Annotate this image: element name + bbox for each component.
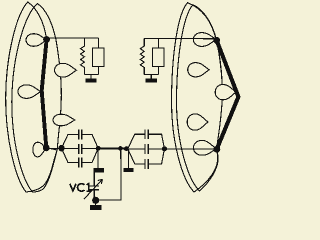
- tube V1 electrode loop on inner ellipse (lower): [53, 114, 75, 126]
- ground below right node C: [127, 148, 129, 168]
- variable capacitor VC1 plates: [89, 186, 100, 190]
- variable capacitor VC1 bottom lead: [93, 190, 95, 198]
- junction dot V1 top: [43, 36, 50, 43]
- variable capacitor VC1 arrow: [84, 179, 102, 199]
- junction dot V2 bottom: [214, 146, 221, 153]
- tube V1 electrode loop to thick electrode middle: [18, 85, 41, 99]
- variable capacitor VC1 top lead: [93, 172, 95, 186]
- junction dot node D (right bank right): [162, 146, 167, 151]
- tube V2 free electrode loop (upper): [188, 63, 209, 77]
- junction dot VC1 bottom: [92, 197, 99, 204]
- capacitor bank right: hexagon frame: [128, 134, 165, 164]
- wire bottom-right: node D to V2 bottom junction: [164, 148, 216, 150]
- ground below VC1: [95, 200, 97, 205]
- tube V2 electrode loop at top junction: [193, 33, 216, 47]
- tube V1 electrode loop to bottom junction: [33, 142, 46, 157]
- wire bottom of left RC network: [84, 74, 98, 76]
- junction dot VC1 branch: [118, 146, 123, 151]
- ground below left node B: [97, 148, 99, 168]
- wire bottom-left: V1 bottom junction to node A: [46, 147, 61, 149]
- resistor R2 box (left network): [97, 38, 99, 75]
- label VC1: [70, 184, 91, 192]
- tube V2 envelope inner ellipse: [176, 5, 222, 191]
- resistor R3 zigzag (right network): [140, 38, 144, 74]
- capacitor C1 plates (top branch, left bank): [79, 130, 82, 140]
- capacitor C4 plates (top branch, right bank): [145, 129, 148, 139]
- tube V1 thick anode electrode: [42, 40, 47, 148]
- resistor R4 box (right network): [157, 38, 159, 74]
- capacitor C3 plates (bottom branch, left bank): [79, 158, 82, 168]
- capacitor C2 plates (middle branch, left bank): [79, 144, 82, 154]
- wire top-right: RC network to V2 top junction: [144, 37, 216, 40]
- junction dot V1 bottom: [43, 145, 50, 152]
- tube V2 envelope outer ellipse: [171, 3, 222, 192]
- tube V1 electrode loop to top junction: [26, 34, 47, 47]
- resistor R1 zigzag (left network): [81, 38, 85, 75]
- tube V1 envelope outer ellipse: [6, 2, 57, 192]
- capacitor C2 middle branch wires: [62, 147, 99, 149]
- tube V1 electrode loop on inner ellipse (upper): [55, 63, 77, 77]
- tube V2 free electrode loop (lower): [187, 114, 208, 130]
- wire bottom of right RC network: [144, 74, 158, 76]
- junction dot node A (left bank left): [58, 145, 64, 151]
- tube V1 envelope inner ellipse: [12, 4, 62, 192]
- junction dot V2 top: [213, 37, 220, 44]
- junction dot node B (left bank right): [96, 146, 101, 151]
- tube V2 thick anode electrode: [217, 40, 239, 149]
- ground of left RC network: [90, 75, 92, 79]
- junction dot node C (right bank left): [124, 146, 129, 151]
- capacitor C5 middle branch wires: [128, 148, 165, 150]
- tube V2 electrode loop at bottom junction: [193, 140, 216, 155]
- wire VC1 branch: dot on thick wire down and left to VC1 bottom: [99, 148, 121, 199]
- thick wire between capacitor banks: [98, 147, 128, 149]
- ground of right RC network: [150, 75, 152, 79]
- tube V2 electrode loop on inner ellipse to anode vertex: [215, 85, 236, 100]
- capacitor C5 plates (middle branch, right bank): [145, 144, 148, 154]
- capacitor bank left: hexagon frame: [62, 134, 99, 162]
- wire top-left: V1 top junction to RC network: [47, 37, 99, 39]
- capacitor C6 plates (bottom branch, right bank): [145, 159, 148, 169]
